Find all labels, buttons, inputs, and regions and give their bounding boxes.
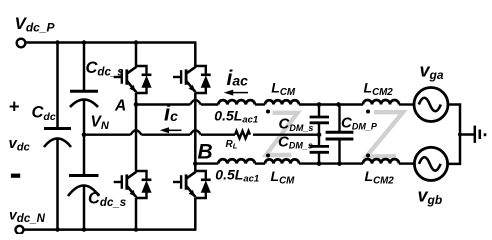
node dot bottom at CDM_s — [317, 161, 322, 166]
node dot bottom rail at left leg — [134, 227, 138, 231]
label iac — [227, 67, 249, 90]
transistor Q3 bottom-left IGBT — [114, 171, 152, 198]
arrow iac — [224, 90, 248, 96]
label LCM2 bottom — [365, 168, 395, 186]
wire Q1 emitter to node A — [135, 93, 138, 105]
watermark Z left — [266, 113, 298, 155]
terminal Vdc_P — [17, 39, 26, 48]
resistor RL — [235, 131, 250, 138]
wire right leg Q2 emitter down to node B — [194, 93, 197, 164]
label 0.5Lac1 bottom — [215, 166, 259, 184]
label Vdc_P — [15, 14, 56, 35]
wire left leg node A down to Q3 — [135, 105, 138, 172]
capacitor Cdc_s top — [70, 43, 98, 135]
battery ground symbol — [475, 126, 480, 143]
wire to battery — [460, 133, 474, 136]
label vga — [420, 61, 444, 83]
label RL — [226, 139, 238, 151]
capacitor CDM_s top — [310, 105, 329, 135]
label VN — [91, 114, 110, 133]
inductor LCM top — [265, 100, 299, 104]
label vdc_N — [9, 207, 46, 226]
wire Q3 emitter to bottom rail — [135, 198, 138, 230]
inductor LCM2 top — [363, 100, 399, 104]
capacitor CDM_s bottom — [310, 135, 329, 164]
node dot VN at CDM_s midpoint — [317, 132, 322, 137]
node dot top rail at left leg — [134, 40, 138, 44]
polarity dot LCM bottom — [266, 154, 270, 158]
wire A line to CDM_s — [299, 103, 363, 105]
capacitor Cdc_s bottom — [68, 135, 99, 230]
label A — [114, 98, 126, 115]
label LCM bottom — [271, 168, 296, 186]
node VN dot — [82, 132, 87, 137]
inductor LCM2 bottom — [363, 159, 399, 164]
label vdc — [9, 135, 30, 154]
label LCM top — [271, 80, 296, 98]
node dot ground bus — [458, 133, 462, 137]
wire phase A line with hop over right leg — [136, 100, 218, 104]
wire B line to source vgb — [399, 162, 415, 164]
wire Q1 collector to rail — [135, 43, 138, 67]
polarity dot LCM2 top — [366, 110, 370, 114]
svg-text:A: A — [114, 98, 126, 115]
label plus — [9, 96, 20, 117]
label CDM_s bottom — [278, 133, 313, 150]
wire A line to source vga — [399, 103, 414, 105]
inductor 0.5Lac1 bottom — [218, 159, 255, 163]
label 0.5Lac1 top — [214, 107, 258, 125]
wire node B down to Q4 — [194, 164, 197, 171]
wire vgb to ground bus — [448, 135, 460, 164]
wire vga to ground bus — [448, 105, 460, 135]
label vgb — [418, 186, 443, 208]
node dot top at CDM_P — [336, 102, 341, 107]
node dot top rail at Cdc — [55, 40, 59, 44]
wire bottom rail — [23, 228, 196, 231]
watermark Z right — [367, 112, 404, 156]
label LCM2 top — [364, 80, 394, 98]
capacitor Cdc — [44, 43, 71, 230]
wire top rail — [25, 41, 196, 44]
wire VN line right of RL — [253, 133, 319, 135]
node dot bottom at CDM_P — [337, 161, 342, 166]
node dot bottom rail at Cdc_s — [82, 227, 86, 231]
terminal vdc_N — [16, 226, 24, 234]
wire Q4 emitter to bottom rail — [194, 198, 197, 230]
label Cdc — [32, 104, 56, 124]
source vgb — [414, 147, 447, 180]
polarity dot LCM2 bottom — [366, 154, 370, 158]
label Cdc_s top — [86, 59, 124, 79]
source vga — [414, 88, 448, 122]
wire phase B line — [195, 162, 218, 164]
svg-text:+: + — [9, 96, 20, 117]
node dot top at CDM_s — [317, 102, 322, 107]
label ic — [164, 101, 178, 126]
label minus — [11, 174, 20, 178]
battery dot mark — [484, 133, 487, 136]
arrow ic — [160, 127, 182, 133]
transistor Q1 top-left IGBT — [114, 66, 152, 93]
polarity dot LCM top — [266, 110, 270, 114]
label CDM_P — [341, 115, 378, 132]
inductor 0.5Lac1 top — [218, 100, 255, 104]
label CDM_s top — [279, 116, 314, 133]
node dot top rail at Cdc_s — [82, 40, 86, 44]
label Cdc_s bottom — [88, 190, 126, 210]
inductor LCM bottom — [265, 159, 299, 163]
wire VN line with hops over legs — [84, 130, 235, 134]
transistor Q2 top-right IGBT — [173, 66, 211, 93]
wire A line between coils — [255, 103, 265, 105]
label B — [198, 141, 213, 164]
node A dot — [134, 102, 139, 107]
capacitor CDM_P — [326, 105, 354, 164]
wire B line to CDM_s — [299, 162, 363, 164]
transistor Q4 bottom-right IGBT — [173, 171, 211, 198]
node dot bottom rail at Cdc — [55, 227, 59, 231]
wire Q2 collector to rail — [194, 43, 197, 67]
svg-text:B: B — [198, 141, 213, 164]
wire B line between coils — [255, 162, 265, 164]
node B dot — [193, 161, 198, 166]
